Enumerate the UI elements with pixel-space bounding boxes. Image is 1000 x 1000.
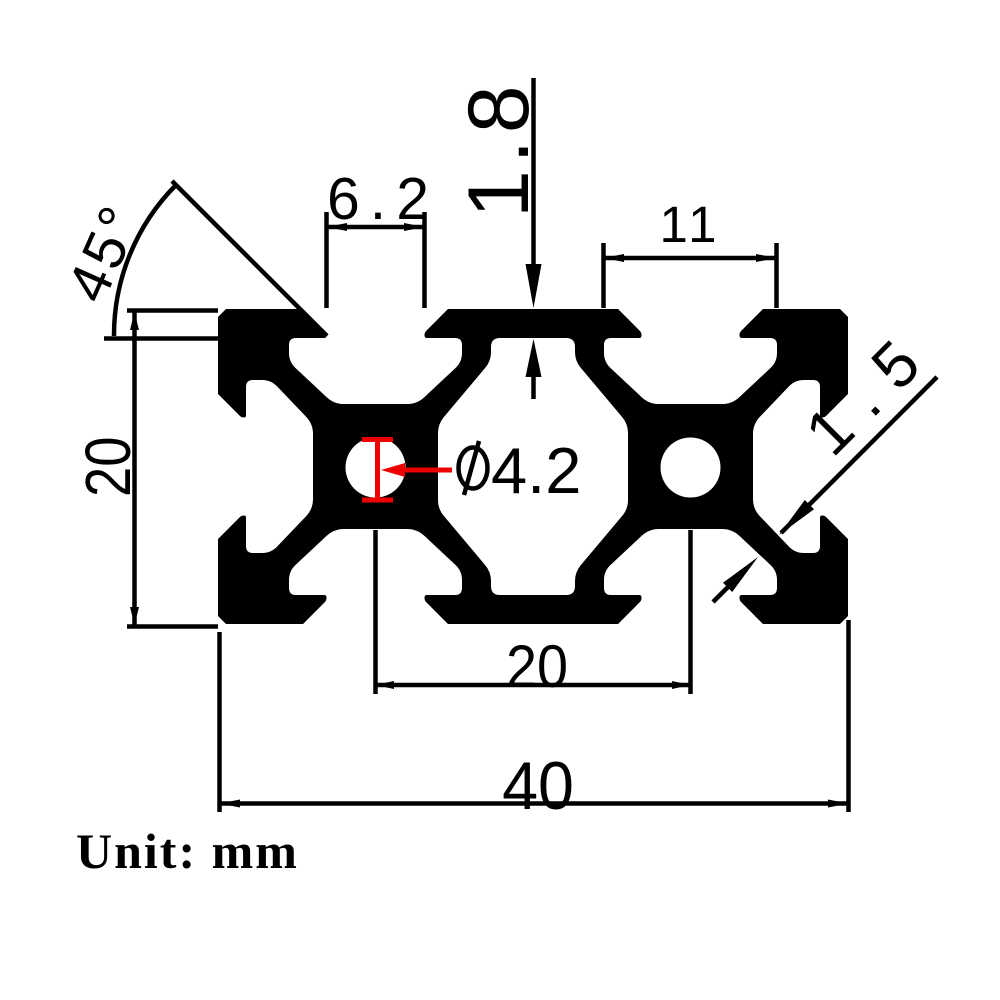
dimension 20 left: top arrow (130, 312, 139, 330)
svg-text:6.2: 6.2 (327, 166, 439, 232)
dimension 6.2: right arrow (404, 223, 425, 231)
dimension 40: right extension line (846, 620, 851, 812)
extrusion profile body (black cross-section) (218, 309, 848, 624)
dimension 20 bottom: left extension line (373, 530, 378, 694)
svg-text:20: 20 (506, 634, 568, 700)
dimension 40: left extension line (217, 632, 222, 812)
dimension 11: right extension line (774, 243, 779, 308)
dimension 20 left: bottom arrow (130, 607, 139, 625)
dimension 20 bottom: left arrow (376, 681, 395, 689)
slot cavity left end (213, 380, 313, 553)
45deg dimension: diagonal chamfer line (172, 181, 327, 336)
slot cavity bottom-right (604, 529, 777, 629)
hole right (phi 4.2) (661, 438, 721, 498)
slot cavity top-right (604, 304, 777, 404)
45deg dimension: base extension line (104, 336, 218, 341)
dimension 11: dimension line (604, 256, 777, 261)
slot cavity top-left (289, 304, 462, 404)
dimension 20 left: dimension line (132, 311, 137, 626)
slot cavity bottom-left (289, 529, 462, 629)
dimension 11: left extension line (601, 243, 606, 308)
svg-text:1.8: 1.8 (451, 79, 547, 218)
svg-text:11: 11 (660, 196, 721, 253)
svg-text:4.2: 4.2 (491, 434, 581, 507)
phi4.2 red leader line (404, 468, 452, 473)
dimension 20 left: bottom extension line (127, 624, 218, 629)
dimension 1.5: lower arrowhead pointing up-right (723, 557, 758, 592)
dimension 6.2: right extension line (422, 212, 427, 308)
dimension 11: left arrow (604, 254, 625, 262)
dimension 40: left arrow (220, 800, 241, 808)
dimension 20 bottom: right extension line (688, 530, 693, 694)
phi4.2 red diameter bar vertical (375, 437, 380, 502)
dimension 20 left: top extension line (127, 308, 218, 313)
dimension 6.2: left extension line (324, 212, 329, 308)
hole left (phi 4.2) (346, 438, 406, 498)
slot cavity right end (753, 380, 853, 553)
phi4.2 red leader arrow (381, 463, 405, 477)
dimension 1.8: upper arrowhead pointing down (526, 264, 542, 308)
dimension 20 bottom: right arrow (672, 681, 691, 689)
dimension 40: dimension line (220, 801, 849, 806)
dimension 1.8: upper leader shaft (531, 78, 536, 270)
dimension 1.8: lower shaft (531, 376, 536, 399)
dimension 6.2: dimension line (327, 225, 425, 230)
phi4.2 red diameter bar bottom serif (362, 498, 393, 503)
phi4.2 red diameter bar top serif (362, 437, 393, 442)
dimension 1.8: lower arrowhead pointing up (526, 339, 542, 377)
dimension 20 bottom: dimension line (376, 683, 691, 688)
45deg dimension: arc (114, 185, 176, 336)
dimension 1.5: upper dimension line (781, 377, 937, 533)
dimension 40: right arrow (828, 800, 849, 808)
phi4.2 diameter symbol (459, 441, 488, 495)
central octagonal cavity (438, 338, 628, 595)
svg-text:40: 40 (502, 749, 574, 825)
svg-text:20: 20 (72, 437, 144, 497)
dimension 11: right arrow (756, 254, 777, 262)
dimension 1.5: lower shaft (713, 585, 730, 602)
svg-text:Unit: mm: Unit: mm (76, 823, 299, 879)
dimension 1.5: upper arrowhead pointing down-left (779, 500, 814, 535)
dimension 6.2: left arrow (327, 223, 348, 231)
